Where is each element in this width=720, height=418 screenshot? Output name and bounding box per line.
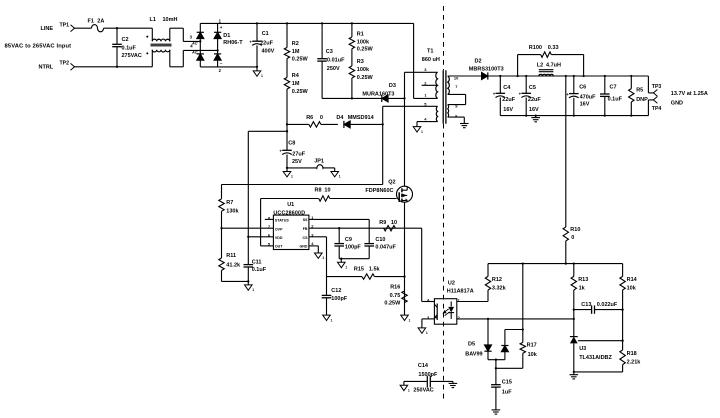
node LINE input label — [41, 22, 70, 32]
svg-text:C5: C5 — [529, 85, 536, 91]
resistor R10 0 — [563, 76, 580, 264]
svg-text:C8: C8 — [288, 140, 295, 146]
test point TP4 — [652, 97, 662, 113]
resistor R4 1M 0.25W — [284, 59, 308, 125]
svg-text:C1: C1 — [262, 31, 269, 37]
svg-text:1: 1 — [408, 388, 410, 392]
svg-text:F1: F1 — [88, 18, 94, 24]
svg-text:22uF: 22uF — [260, 40, 273, 46]
ground at U2 pin3 — [418, 328, 428, 335]
svg-text:TP4: TP4 — [652, 106, 662, 112]
capacitor C12 100pF — [322, 277, 348, 316]
shunt regulator U3 TL431AIDBZ — [570, 337, 613, 372]
resistor R9 10 — [379, 220, 397, 231]
wire bulk+ to T1 pin1 — [414, 23, 438, 98]
node NTRL input label — [39, 60, 70, 70]
svg-text:0.1uF: 0.1uF — [252, 267, 267, 273]
svg-text:470uF: 470uF — [580, 94, 597, 100]
svg-text:R6: R6 — [306, 115, 313, 121]
wire L1 to bridge AC1 — [183, 28, 200, 41]
svg-text:1: 1 — [421, 130, 423, 134]
svg-text:0.25W: 0.25W — [357, 75, 374, 81]
svg-text:860 uH: 860 uH — [422, 57, 440, 63]
svg-text:10mH: 10mH — [163, 17, 178, 23]
capacitor C6 470uF 16V — [566, 76, 596, 116]
ground at R16 — [401, 315, 411, 322]
svg-text:0.01uF: 0.01uF — [327, 58, 345, 64]
wire bias winding pin5 — [383, 105, 438, 107]
svg-text:100k: 100k — [357, 39, 370, 45]
svg-text:C9: C9 — [345, 237, 352, 243]
transformer T1 860uH primary winding — [422, 48, 440, 98]
resistor R1 100k 0.25W — [349, 23, 373, 52]
resistor R7 130k — [219, 185, 240, 229]
svg-text:U2: U2 — [448, 280, 455, 286]
resistor R18 2.21k — [620, 350, 641, 372]
wire C14 left to ground — [403, 381, 405, 385]
svg-text:D1: D1 — [223, 33, 230, 39]
svg-text:R10: R10 — [570, 227, 580, 233]
svg-text:OVP: OVP — [275, 227, 283, 231]
svg-text:0.022uF: 0.022uF — [597, 302, 618, 308]
svg-text:250VAC: 250VAC — [413, 387, 433, 393]
diode D5 second half — [488, 330, 523, 361]
diode D3 MURA160T3 — [362, 83, 404, 102]
wire to TP4 — [648, 100, 653, 116]
svg-text:C12: C12 — [331, 288, 341, 294]
svg-text:27uF: 27uF — [292, 151, 305, 157]
svg-text:MBRS3100T3: MBRS3100T3 — [469, 66, 504, 72]
capacitor C7 0.1uF — [600, 76, 623, 116]
resistor R2 1M 0.25W — [284, 23, 308, 62]
svg-text:R2: R2 — [292, 41, 299, 47]
svg-text:MURA160T3: MURA160T3 — [362, 91, 394, 97]
svg-text:R12: R12 — [492, 277, 502, 283]
svg-text:10k: 10k — [528, 352, 538, 358]
svg-text:1k: 1k — [579, 285, 586, 291]
svg-text:R8: R8 — [315, 187, 322, 193]
svg-text:C4: C4 — [503, 85, 511, 91]
ground at U3 — [570, 372, 579, 379]
capacitor C15 1uF — [491, 368, 512, 410]
svg-text:1M: 1M — [292, 49, 300, 55]
svg-text:D5: D5 — [468, 341, 475, 347]
wire snubber bottom — [322, 97, 382, 99]
ground at U1 pin4 — [315, 253, 325, 260]
capacitor C14 1500pF 250VAC — [404, 363, 453, 393]
svg-text:C2: C2 — [122, 37, 129, 43]
wire TP2 to L1 (bottom line) — [75, 66, 153, 68]
svg-text:22uF: 22uF — [528, 97, 541, 103]
resistor R100 0.33 — [518, 45, 584, 76]
wire D5 node to R17 bottom — [495, 360, 523, 370]
svg-text:TP2: TP2 — [60, 60, 70, 66]
wire U3 ref to R14 R18 node — [578, 340, 623, 342]
svg-text:0.33: 0.33 — [548, 45, 559, 51]
ground at C15 — [492, 410, 501, 414]
resistor R13 1k — [571, 264, 588, 337]
svg-text:C6: C6 — [579, 85, 586, 91]
wire T1 pin10 to D2 — [448, 75, 482, 77]
ground at C14 primary — [400, 385, 410, 392]
resistor R12 3.32k — [485, 264, 506, 292]
svg-text:AC: AC — [191, 42, 198, 46]
svg-text:1: 1 — [426, 331, 428, 335]
svg-text:16V: 16V — [580, 102, 590, 108]
svg-text:25V: 25V — [292, 159, 302, 165]
wire L1 to bridge AC2 — [183, 50, 217, 66]
svg-text:1: 1 — [409, 318, 411, 322]
capacitor C9 100pF — [334, 228, 361, 259]
svg-text:1: 1 — [339, 175, 341, 179]
text input range — [5, 44, 72, 50]
ground at JP1 — [331, 168, 341, 179]
svg-text:T1: T1 — [427, 48, 433, 54]
svg-text:3.32k: 3.32k — [492, 285, 507, 291]
ground at C1 — [253, 66, 263, 78]
wire T1 pin4 to ground — [417, 122, 438, 127]
svg-text:TP1: TP1 — [60, 22, 70, 28]
svg-text:OUT: OUT — [275, 245, 283, 249]
wire OVP sense rail — [222, 184, 383, 186]
transformer T1 lower secondary winding — [448, 104, 459, 119]
svg-text:NTRL: NTRL — [39, 65, 54, 71]
resistor R3 100k 0.25W — [349, 49, 373, 99]
wire U1 GND pin4 — [314, 246, 318, 253]
wire C9 C10 ground rail — [339, 258, 369, 263]
svg-text:16V: 16V — [529, 107, 539, 113]
svg-text:1uF: 1uF — [502, 390, 512, 396]
svg-text:0.047uF: 0.047uF — [375, 244, 396, 250]
svg-text:R5: R5 — [636, 87, 643, 93]
ground at C9 C10 — [338, 262, 348, 269]
ground at C12 — [323, 315, 333, 322]
svg-text:D4: D4 — [336, 115, 344, 121]
svg-text:0.1uF: 0.1uF — [608, 97, 623, 103]
svg-text:275VAC: 275VAC — [122, 53, 142, 59]
optocoupler U2 H11A817A — [427, 280, 474, 324]
svg-text:GND: GND — [300, 245, 308, 249]
svg-text:VDD: VDD — [275, 236, 283, 240]
svg-text:100k: 100k — [357, 67, 370, 73]
svg-text:130k: 130k — [226, 209, 239, 215]
svg-text:–: – — [220, 61, 223, 66]
svg-text:0: 0 — [571, 235, 574, 241]
ground at T1 pin6 — [460, 124, 469, 128]
svg-text:C14: C14 — [418, 363, 429, 369]
svg-text:10: 10 — [391, 220, 397, 226]
capacitor C13 0.022uF — [574, 302, 623, 314]
svg-text:R18: R18 — [627, 351, 637, 357]
svg-text:0.25W: 0.25W — [384, 301, 401, 307]
svg-text:1: 1 — [291, 175, 293, 179]
bridge rectifier D1 RH06-T — [190, 19, 244, 73]
wire OUT to R8 — [261, 199, 274, 246]
wire T1 pin3 to drain column — [405, 71, 438, 73]
svg-text:250V: 250V — [327, 66, 340, 72]
resistor R17 10k — [520, 264, 538, 369]
svg-text:SS: SS — [303, 218, 308, 222]
test point TP3 — [652, 84, 662, 96]
transformer T1 core — [443, 70, 446, 123]
resistor R16 0.75 0.25W — [384, 284, 407, 306]
wire SS pin1 line — [314, 218, 369, 220]
svg-text:2A: 2A — [97, 18, 104, 24]
wire CS pin3 line — [314, 237, 326, 277]
svg-text:U1: U1 — [287, 202, 294, 208]
svg-text:1: 1 — [331, 318, 333, 322]
wire bulk+ top rail — [200, 22, 413, 24]
diode D5 BAV99 — [465, 319, 491, 360]
wire R11 ground rail — [222, 280, 249, 282]
svg-text:0.25W: 0.25W — [292, 57, 309, 63]
svg-text:FB: FB — [303, 227, 308, 231]
svg-text:100pF: 100pF — [345, 244, 362, 250]
svg-text:+: + — [220, 25, 223, 30]
svg-text:85VAC to 265VAC Input: 85VAC to 265VAC Input — [5, 44, 72, 50]
wire to TP3 — [648, 76, 653, 93]
isolation barrier dashed line — [443, 6, 445, 401]
wire T1 pin6 to ground — [448, 117, 465, 123]
svg-text:400V: 400V — [262, 48, 275, 54]
text output GND — [671, 100, 683, 106]
test point TP1 — [71, 25, 75, 32]
fuse F1 2A — [88, 18, 105, 31]
svg-text:C3: C3 — [326, 49, 333, 55]
svg-text:41.2k: 41.2k — [226, 263, 241, 269]
svg-text:0: 0 — [320, 115, 323, 121]
jumper JP1 — [287, 159, 335, 170]
svg-text:L1: L1 — [150, 17, 156, 23]
wire bias to D4 and OVP rail — [382, 106, 384, 184]
svg-text:C7: C7 — [610, 85, 617, 91]
svg-text:H11A817A: H11A817A — [447, 289, 474, 295]
ground at output rail — [531, 116, 540, 122]
svg-text:R16: R16 — [390, 284, 400, 290]
svg-text:R17: R17 — [527, 342, 537, 348]
wire U2 pin3 to ground — [422, 319, 435, 328]
capacitor C2 0.1uF 275VAC — [112, 28, 142, 67]
svg-text:L2: L2 — [537, 62, 543, 68]
svg-text:BAV99: BAV99 — [465, 351, 482, 357]
svg-text:GND: GND — [671, 100, 683, 106]
svg-text:TP3: TP3 — [652, 84, 662, 90]
svg-text:1: 1 — [322, 256, 324, 260]
transformer T1 secondary winding — [448, 75, 459, 94]
inductor L1 10mH common-mode choke — [146, 17, 183, 67]
svg-text:C10: C10 — [375, 237, 385, 243]
capacitor C5 22uF 16V — [519, 76, 542, 116]
wire U3 anode to R18 bottom — [573, 371, 623, 373]
svg-text:0.75: 0.75 — [390, 293, 401, 299]
wire T1 pin2 stub — [422, 84, 438, 86]
svg-text:1: 1 — [252, 288, 254, 292]
svg-text:13.7V at 1.25A: 13.7V at 1.25A — [671, 91, 708, 97]
svg-text:MMSD914: MMSD914 — [348, 115, 375, 121]
wire U2 pin1 to R12 — [457, 290, 488, 302]
svg-text:10: 10 — [324, 187, 330, 193]
capacitor C10 0.047uF — [364, 219, 396, 258]
ground at C8 — [283, 167, 293, 179]
svg-text:FDP8N60C: FDP8N60C — [365, 188, 393, 194]
capacitor C11 0.1uF — [244, 236, 267, 282]
svg-text:D2: D2 — [475, 59, 482, 65]
capacitor C8 27uF 25V — [279, 123, 305, 168]
capacitor C1 22uF 400V — [249, 23, 274, 67]
svg-text:R100: R100 — [529, 45, 542, 51]
svg-text:100pF: 100pF — [331, 296, 348, 302]
svg-text:22uF: 22uF — [502, 97, 515, 103]
wire Q2 source column — [403, 202, 405, 315]
test point TP2 — [71, 63, 75, 70]
svg-text:U3: U3 — [579, 346, 586, 352]
wire FB to optocoupler — [422, 228, 435, 301]
wire FB pin2 line — [314, 227, 421, 229]
resistor R15 1.5k — [327, 266, 405, 279]
text output rating — [671, 91, 708, 97]
svg-text:1500pF: 1500pF — [418, 372, 438, 378]
wire VDD feed line — [248, 130, 288, 237]
svg-text:0.25W: 0.25W — [292, 89, 309, 95]
op-amp U1 UCC28600D — [265, 202, 315, 250]
resistor R8 10 gate — [261, 187, 397, 201]
svg-text:CS: CS — [303, 236, 309, 240]
svg-text:0.25W: 0.25W — [357, 47, 374, 53]
wire feedback top rail — [488, 262, 623, 264]
wire T1 pin7 to pin9 — [448, 94, 466, 104]
svg-text:C11: C11 — [252, 259, 262, 265]
svg-text:C15: C15 — [502, 379, 512, 385]
ground at C11 — [245, 280, 255, 292]
svg-text:AC: AC — [191, 51, 198, 55]
svg-text:RH06-T: RH06-T — [223, 40, 243, 46]
ground at T1 pin4 — [413, 127, 423, 134]
capacitor C3 0.01uF 250V — [317, 23, 345, 98]
wire TP1 to fuse — [75, 27, 92, 29]
svg-text:LINE: LINE — [41, 26, 54, 32]
svg-text:JP1: JP1 — [314, 159, 324, 165]
wire U2 pin2 feedback line — [457, 318, 575, 320]
svg-text:0.1uF: 0.1uF — [122, 45, 137, 51]
svg-text:D3: D3 — [389, 83, 396, 89]
inductor L2 4.7uH — [537, 62, 561, 76]
capacitor C4 22uF 16V — [493, 76, 516, 116]
svg-text:2.21k: 2.21k — [627, 360, 642, 366]
ground at C14 secondary — [449, 383, 458, 387]
svg-text:R15: R15 — [354, 266, 364, 272]
wire primary ground rail — [200, 66, 257, 68]
svg-text:R3: R3 — [357, 59, 364, 65]
svg-text:R1: R1 — [357, 31, 364, 37]
svg-text:16V: 16V — [503, 107, 513, 113]
svg-text:1M: 1M — [292, 81, 300, 87]
svg-text:C13: C13 — [581, 302, 591, 308]
wire fuse to L1 (top line) — [104, 27, 153, 29]
svg-text:R11: R11 — [226, 253, 236, 259]
svg-text:1.5k: 1.5k — [369, 266, 381, 272]
wire output V+ rail — [488, 75, 649, 77]
wire output ground rail — [500, 114, 648, 116]
resistor R14 10k — [620, 264, 638, 350]
svg-text:R7: R7 — [226, 200, 233, 206]
svg-text:R9: R9 — [379, 220, 386, 226]
resistor R6 0 — [287, 115, 338, 127]
svg-text:DNP: DNP — [636, 97, 648, 103]
wire drain column — [403, 72, 405, 186]
svg-text:R13: R13 — [578, 277, 588, 283]
svg-text:4.7uH: 4.7uH — [546, 62, 561, 68]
svg-text:10k: 10k — [627, 285, 637, 291]
svg-text:Q2: Q2 — [388, 180, 395, 186]
svg-text:1: 1 — [345, 266, 347, 270]
svg-text:R14: R14 — [627, 277, 638, 283]
wire OVP line — [220, 227, 273, 229]
svg-text:R4: R4 — [292, 73, 300, 79]
transformer T1 bias winding — [424, 101, 437, 121]
diode D2 MBRS3100T3 — [469, 59, 504, 80]
svg-text:STATUS: STATUS — [275, 218, 289, 222]
transistor Q2 FDP8N60C — [365, 180, 412, 203]
svg-text:1: 1 — [261, 74, 263, 78]
resistor R5 DNP — [629, 76, 649, 116]
diode D4 MMSD914 — [336, 115, 382, 128]
svg-text:TL431AIDBZ: TL431AIDBZ — [579, 355, 612, 361]
wire C14 right to ground — [452, 381, 454, 383]
resistor R11 41.2k — [219, 228, 241, 281]
